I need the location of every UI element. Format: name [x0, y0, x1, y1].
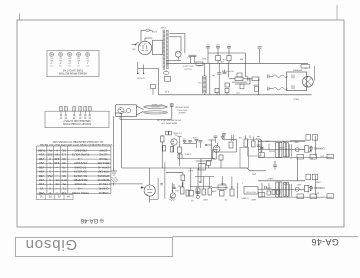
coupling capacitor C8 [188, 141, 192, 144]
channel 1 bypass box c [327, 154, 334, 159]
channel 2 jack wire [299, 188, 304, 190]
svg-text:450V: 450V [201, 57, 206, 59]
preamp tube V2 envelope [213, 143, 220, 152]
svg-text:V3A: V3A [39, 170, 44, 174]
svg-text:OUTPUT 6V6: OUTPUT 6V6 [221, 69, 234, 71]
bus terminal block [199, 164, 206, 171]
wire controls top [190, 186, 212, 188]
line voltage note [182, 65, 194, 70]
wire mic shield to ground [113, 113, 121, 171]
svg-text:350-0-350 V: 350-0-350 V [182, 65, 194, 67]
phase splitter tube V3 envelope [144, 185, 155, 196]
svg-text:CTR-TAP: CTR-TAP [98, 170, 109, 174]
svg-text:98: 98 [62, 161, 66, 165]
tube designation strip below chart [36, 195, 73, 200]
svg-text:250K: 250K [192, 136, 197, 138]
wire heater drop [157, 69, 159, 95]
grid network box pair [166, 131, 172, 135]
svg-text:115V AC: 115V AC [136, 77, 145, 80]
channel 1 left box [259, 153, 265, 158]
tone resistor box a [181, 182, 185, 194]
svg-text:TO GRID: TO GRID [173, 132, 182, 134]
registration tick top-right [336, 5, 338, 20]
channel 1 triode grid node [295, 148, 299, 152]
svg-text:V2B: V2B [39, 165, 44, 169]
controls drop c [231, 177, 233, 190]
svg-text:SO VOLTS: SO VOLTS [74, 170, 87, 174]
svg-text:V4A: V4A [39, 178, 44, 182]
plate lower resistor [178, 154, 182, 159]
svg-text:250K: 250K [283, 183, 288, 185]
input series resistor [161, 135, 165, 168]
socket connection legend box [45, 111, 109, 127]
channel 1 plate feed box b [312, 133, 318, 140]
dropping resistor R2 [227, 53, 231, 63]
svg-text:V: V [56, 148, 58, 152]
speaker terminal frame [287, 72, 307, 91]
control link wire [212, 187, 228, 189]
channel 2 coupling cap Ca [284, 182, 286, 196]
svg-text:FOOT SW: FOOT SW [246, 191, 255, 193]
svg-text:500K: 500K [279, 146, 284, 148]
svg-text:OHM 41: OHM 41 [98, 187, 108, 191]
plate loop wire [213, 140, 237, 153]
channel 1 coupling cap Cb [286, 143, 288, 157]
speaker field coil cap upper [292, 75, 294, 79]
svg-text:12AX7: 12AX7 [268, 149, 275, 152]
svg-text:88: 88 [62, 170, 66, 174]
coupling cap row [196, 189, 200, 197]
wire terminal drop b [261, 183, 263, 197]
bus offset segment [247, 168, 266, 174]
svg-text:98: 98 [62, 174, 66, 178]
socket lug 1 [60, 107, 63, 119]
svg-text:PL: PL [48, 148, 52, 152]
channel 2 plate feed box b [312, 172, 318, 179]
title block rule line [173, 236, 359, 238]
svg-text:ALL VOLTAGES MEASURED TO CHASS: ALL VOLTAGES MEASURED TO CHASSIS GND [52, 140, 103, 143]
divider network rail b [196, 168, 200, 198]
svg-text:470K: 470K [264, 140, 269, 142]
svg-text:V2A: V2A [39, 161, 44, 165]
svg-text:MIC: MIC [308, 150, 312, 152]
channel 2 input jack [305, 185, 313, 192]
decoupling resistor R9 [207, 161, 211, 169]
channel 2 plate resistor Rb [279, 182, 282, 197]
svg-text:V3B: V3B [39, 174, 44, 178]
svg-text:V5: V5 [39, 187, 43, 191]
svg-text:5V 6.3V: 5V 6.3V [184, 67, 192, 69]
filter capacitor C3 [227, 43, 231, 53]
channel 1 plate resistor Ra [276, 142, 279, 157]
channel 1 plate feed box a [306, 133, 311, 140]
channel 2 coupling cap Cb [286, 182, 288, 196]
svg-text:FUSE: FUSE [151, 30, 157, 32]
tone cap drop [222, 176, 224, 185]
channel 2 bypass box c [327, 194, 334, 199]
wire mic ground drop [120, 116, 172, 120]
bias resistor R5 [225, 83, 230, 87]
svg-text:70-: 70- [55, 178, 59, 182]
svg-text:6.3 V: 6.3 V [187, 169, 192, 171]
svg-text:Gibson: Gibson [25, 236, 77, 253]
interstage capacitor C6 [248, 77, 249, 80]
svg-text:115 AC: 115 AC [99, 153, 108, 157]
screen bleeder box [255, 87, 259, 92]
socket lug 3 [73, 107, 76, 119]
filter capacitor C1 [206, 43, 210, 53]
channel 1 mid wire [258, 149, 304, 151]
svg-text:FIL-VOLTS: FIL-VOLTS [74, 174, 87, 178]
wire lamp to transformer [166, 59, 181, 61]
fuse F1 [144, 29, 153, 31]
shielded cable conductor 1 [144, 105, 168, 108]
svg-text:98: 98 [55, 153, 59, 157]
bus terminal label box [301, 65, 310, 69]
svg-text:70-: 70- [55, 182, 59, 186]
tone loop wire [166, 173, 183, 175]
svg-text:1M: 1M [178, 184, 181, 186]
svg-text:FIELD: FIELD [293, 98, 299, 100]
tone resistor box c [202, 189, 206, 195]
plate resistor R8 [178, 143, 182, 166]
svg-text:—: — [55, 187, 58, 191]
controls drop a [203, 177, 205, 190]
svg-text:WHEN 41: WHEN 41 [97, 178, 109, 182]
wire plate row [183, 142, 196, 144]
ground bus B- line [166, 62, 308, 64]
channel 1 jack label marker [310, 147, 312, 150]
svg-text:V4B: V4B [39, 182, 44, 186]
pilot lamp P1 [163, 70, 169, 74]
filter capacitor C2 [215, 43, 220, 53]
output transformer secondary lead lower [268, 87, 288, 91]
svg-text:AMP: AMP [251, 198, 256, 201]
wire output right drop [258, 79, 260, 95]
svg-text:SPEAKER AND OUTPUT: SPEAKER AND OUTPUT [63, 119, 91, 122]
interstage shield outline [248, 139, 261, 156]
svg-text:TOTAL 5 PMS: TOTAL 5 PMS [72, 191, 89, 195]
divider network rail a [189, 168, 194, 196]
svg-text:750 AC: 750 AC [99, 157, 108, 161]
socket lug 2 [64, 107, 67, 119]
socket lug 6 [88, 107, 91, 119]
speaker cone [302, 76, 313, 87]
channel 2 plate wire [258, 180, 305, 182]
shielded cable conductor 2 [144, 111, 168, 114]
tone loop resistor [181, 175, 185, 187]
svg-text:CHANNEL 2: CHANNEL 2 [311, 186, 325, 189]
svg-text:500K: 500K [202, 198, 207, 200]
svg-text:CONT: CONT [99, 148, 107, 152]
svg-text:VOLTAGE READINGS TAKEN WITH 10: VOLTAGE READINGS TAKEN WITH 1000 OHM PER… [39, 143, 112, 146]
wire filter to bus [207, 53, 209, 63]
svg-text:CATH. 41: CATH. 41 [97, 165, 109, 169]
channel 1 input jack [305, 146, 313, 153]
inter-channel rail [296, 158, 298, 181]
svg-text:PLATE VOLTS: PLATE VOLTS [72, 153, 90, 157]
tube layout legend box [47, 51, 99, 77]
output terminal box [244, 187, 258, 195]
grid capacitor C9 [221, 135, 225, 140]
svg-text:AMPLIFIER TOP: AMPLIFIER TOP [161, 122, 177, 125]
cap pair right [265, 186, 271, 195]
svg-text:75.: 75. [62, 187, 66, 191]
preamp tube V1 envelope [171, 139, 177, 152]
decoupling cap mid [273, 161, 277, 170]
svg-text:350-0-350: 350-0-350 [97, 161, 110, 165]
divider cap [199, 182, 202, 183]
AC line wires [137, 62, 159, 74]
tone resistor box e [230, 189, 234, 196]
channel 1 grid resistor strip [290, 144, 292, 157]
wire drop to tone [200, 159, 202, 182]
channel 2 bypass box b [310, 194, 317, 199]
channel 1 right rail [315, 136, 317, 156]
tube top-view symbol V2 [58, 52, 62, 66]
svg-text:12AX7: 12AX7 [267, 177, 274, 180]
svg-text:235: 235 [47, 153, 52, 157]
power switch SW1 [132, 42, 139, 45]
transformer primary enclosure [152, 40, 162, 54]
filter drop wire right [245, 53, 247, 63]
svg-text:SHIELD: SHIELD [178, 111, 186, 113]
coupling capacitor C7 [183, 138, 187, 144]
plate resistor R10 [229, 142, 233, 148]
tone capacitor box [218, 185, 226, 190]
filter node wire [208, 52, 246, 54]
border frame of schematic sheet [17, 20, 344, 227]
channel 2 grid resistor strip [290, 184, 292, 197]
channel 2 mid wire [258, 188, 304, 190]
channel 2 bottom wire [258, 196, 333, 198]
channel 1 bottom wire [258, 157, 333, 159]
output socket box [237, 73, 242, 77]
svg-text:27.5: 27.5 [61, 178, 67, 182]
plate cap stub a [195, 140, 199, 149]
output screen drop b [245, 63, 247, 77]
channel 1 plate wire [258, 140, 305, 142]
filter choke L1 [198, 76, 206, 94]
tone stack enclosure [240, 147, 248, 168]
pot 1 upper cap [172, 184, 176, 189]
tone lower box [220, 191, 225, 197]
transformer lead label box [151, 85, 156, 95]
left channel resistor pair lower [272, 190, 280, 195]
svg-text:1 M: 1 M [239, 136, 243, 138]
svg-text:VIEWED FROM BOTTOM: VIEWED FROM BOTTOM [59, 72, 87, 75]
svg-text:1.1: 1.1 [62, 153, 66, 157]
svg-text:TUBE: TUBE [38, 148, 46, 152]
output cathode cap [223, 70, 227, 74]
cable funnel [136, 106, 143, 115]
microphone usage note [157, 119, 181, 125]
grid dot terminal [141, 187, 144, 189]
wire tube top to primary [144, 38, 146, 41]
microphone connector box [116, 105, 137, 117]
svg-text:—: — [55, 170, 58, 174]
svg-text:CHANNEL 1: CHANNEL 1 [311, 147, 325, 150]
screen resistor R12 [252, 137, 256, 148]
svg-text:47K: 47K [320, 154, 324, 156]
channel 1 bypass box a [297, 154, 304, 159]
wire splitter to bus [149, 168, 151, 203]
svg-text:SOCKET CONNECTIONS: SOCKET CONNECTIONS [63, 122, 92, 125]
svg-text:READING: READING [74, 148, 86, 152]
svg-text:SW: SW [132, 48, 135, 50]
channel 1 bypass box b [310, 154, 317, 159]
socket lug 4 [79, 107, 82, 119]
svg-text:B-: B- [304, 66, 306, 68]
svg-text:75: 75 [62, 165, 66, 169]
wire switch to tube [139, 44, 141, 47]
svg-text:500K: 500K [211, 189, 216, 191]
svg-text:V1B: V1B [39, 157, 44, 161]
terminal strip box [165, 76, 171, 81]
svg-text:TO AMPL: TO AMPL [241, 197, 249, 200]
wire choke to bus2 [204, 63, 209, 95]
svg-text:PWR: PWR [160, 26, 165, 28]
svg-text:6.3V: 6.3V [164, 90, 169, 92]
svg-text:— 2: — 2 [78, 157, 83, 161]
svg-text:SC: SC [62, 148, 66, 152]
tail wire [235, 79, 250, 84]
heater bus line [158, 94, 311, 96]
svg-text:98: 98 [62, 157, 66, 161]
output screen drop a [228, 63, 230, 77]
svg-text:1 MEG: 1 MEG [185, 153, 191, 155]
input shunt resistor [163, 146, 166, 152]
volume pot lead [171, 183, 173, 192]
svg-text:TUBE LAYOUT AS: TUBE LAYOUT AS [63, 68, 84, 71]
wire transformer top loop [170, 33, 185, 53]
coupling cap cluster right [196, 140, 216, 161]
svg-text:75-: 75- [62, 182, 66, 186]
svg-text:GND: GND [251, 172, 256, 174]
input grid resistor [171, 147, 174, 153]
feedback resistor R3 [229, 77, 243, 81]
tone resistor box b [186, 190, 190, 196]
svg-text:SHIELDED: SHIELDED [151, 105, 160, 107]
bias lamp/jewel [175, 51, 181, 60]
tone resistor box d [208, 188, 212, 195]
svg-text:220K: 220K [281, 140, 286, 142]
rectifier tube V5 5Y3 envelope [138, 41, 151, 54]
svg-text:TO CHAS: TO CHAS [74, 182, 86, 186]
svg-text:.02: .02 [183, 138, 186, 140]
tube top-view symbol V3 [67, 52, 71, 66]
controls drop b [209, 177, 211, 189]
svg-text:SPEAKER: SPEAKER [292, 69, 302, 72]
rectifier cathode capacitor b [193, 55, 197, 63]
svg-text:68K: 68K [294, 141, 298, 143]
svg-text:FILS 240V: FILS 240V [74, 161, 87, 165]
coupling capacitor C5 [217, 63, 221, 95]
svg-text:GND: GND [197, 64, 202, 66]
cathode resistor R13 [219, 155, 223, 168]
controls feed wire [195, 176, 214, 178]
voltage chart table [36, 146, 111, 193]
Gibson logo box [16, 238, 173, 257]
output transformer secondary lead upper [268, 74, 288, 78]
tube top-view symbol V5 [85, 52, 89, 66]
channel 2 jack label marker [310, 186, 312, 189]
screen capacitor C4 [258, 45, 264, 63]
svg-text:MICROPHONE: MICROPHONE [174, 106, 188, 108]
channel 2 left box [259, 192, 265, 197]
wire splitter cathode [150, 178, 158, 199]
channel 2 bypass box a [297, 194, 304, 199]
svg-text:—: — [55, 174, 58, 178]
microphone note text [174, 106, 188, 114]
svg-text:JPNS-PIL: JPNS-PIL [97, 174, 109, 178]
channel 2 right rail [315, 175, 317, 195]
svg-text:10K: 10K [220, 60, 224, 62]
svg-text:500K: 500K [266, 186, 271, 188]
output lower box [240, 84, 244, 89]
channel 1 plate resistor Rb [279, 142, 282, 157]
channel 1 jack wire [299, 149, 304, 151]
power transformer T1 windings [163, 30, 168, 70]
rectifier cathode capacitor [189, 55, 193, 63]
svg-text:TONE: TONE [220, 182, 226, 184]
screen resistor R11 [244, 136, 248, 148]
cathode resistor R6 [215, 89, 219, 95]
grid stopper marks [178, 137, 182, 144]
channel 2 left coupling stub [268, 183, 270, 190]
svg-text:240: 240 [54, 157, 59, 161]
wire tube to transformer box [145, 38, 152, 48]
cap at 250 top [250, 136, 260, 139]
svg-text:240: 240 [54, 161, 59, 165]
channel 2 plate feed box a [306, 172, 311, 179]
tube top-view symbol V1 [49, 52, 53, 66]
pot ground hatch [169, 197, 176, 201]
tube top-view symbol V4 [76, 52, 80, 66]
svg-text:68K: 68K [297, 183, 301, 185]
channel 2 plate resistor Ra [276, 182, 279, 197]
plate bypass cap a [214, 136, 218, 143]
plate bypass cap pair c [232, 135, 234, 141]
coupling caps right [257, 140, 264, 152]
plate cap stub b [199, 141, 203, 148]
dropping resistor R1 [216, 53, 221, 63]
volume pot VR1 [170, 190, 175, 198]
cable terminal bar [171, 104, 174, 116]
plate bypass cap b [222, 134, 226, 140]
wire terminal drop a [237, 183, 239, 198]
svg-text:LINE-41: LINE-41 [98, 191, 108, 195]
wire fuse to switch [141, 30, 144, 41]
svg-text:— 8: — 8 [78, 187, 83, 191]
channel 1 plate feed wire [290, 140, 306, 142]
circled cross note marker [100, 219, 104, 223]
wire speaker to note box [314, 66, 316, 81]
svg-text:GA-46: GA-46 [80, 217, 98, 224]
speaker field coil cap lower [292, 85, 294, 89]
registration tick top-left [19, 14, 21, 21]
wire screen row [183, 158, 215, 160]
bus label box [196, 62, 203, 66]
wire inner loop [170, 37, 182, 52]
socket lug 5 [84, 107, 87, 119]
svg-text:75A: 75A [48, 174, 53, 178]
svg-text:250K: 250K [252, 83, 257, 85]
cathode resistor R7 [225, 89, 229, 95]
svg-text:GRID: GRID [315, 180, 321, 182]
channel 2 triode grid node [295, 187, 299, 191]
main ground bus line [122, 167, 247, 169]
